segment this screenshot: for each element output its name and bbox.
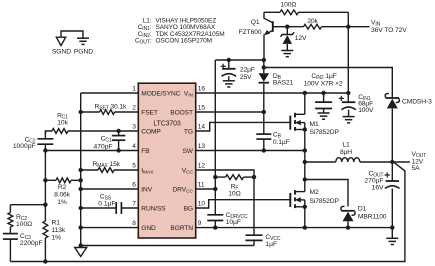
label CC1 470pF bbox=[94, 136, 113, 151]
label CSS 0.1uF bbox=[98, 193, 115, 207]
wire pin16 VIN row bbox=[196, 92, 349, 94]
wire Q1 base row bbox=[273, 26, 288, 28]
svg-text:GND: GND bbox=[141, 225, 156, 232]
wire FB column bbox=[44, 151, 46, 205]
label RMAX 15k bbox=[93, 161, 121, 169]
svg-text:BAS21: BAS21 bbox=[273, 79, 294, 86]
wire pin13 SW row bbox=[196, 150, 305, 152]
svg-text:8: 8 bbox=[132, 220, 136, 227]
svg-text:6: 6 bbox=[132, 182, 136, 189]
label 12V bbox=[295, 35, 307, 42]
node bus/SGND junction bbox=[79, 243, 83, 247]
svg-text:BG: BG bbox=[184, 205, 193, 212]
svg-text:14: 14 bbox=[198, 124, 206, 131]
label L1 8uH bbox=[340, 141, 352, 156]
label Q1 FZT600 bbox=[239, 19, 262, 36]
svg-text:1%: 1% bbox=[57, 199, 67, 206]
diode D1 MBR1100 bbox=[341, 206, 355, 221]
wire CC3 bottom corner bbox=[9, 239, 11, 261]
svg-text:12V: 12V bbox=[295, 35, 307, 42]
transistor M2 Si7852DP bbox=[290, 190, 307, 209]
svg-text:8µH: 8µH bbox=[340, 149, 352, 156]
node INV/bus junction bbox=[79, 187, 83, 191]
resistor 100 ohm bbox=[280, 10, 299, 15]
node M2 source/bus junction bbox=[303, 225, 307, 229]
resistor RMAX 15k bbox=[98, 168, 114, 173]
wire D1 cathode branch bbox=[305, 180, 348, 207]
wire R2 right lead bbox=[71, 179, 81, 181]
svg-text:FSET: FSET bbox=[141, 109, 158, 116]
wire CDRVCC bottom lead bbox=[214, 221, 216, 228]
wire RF left lead bbox=[215, 176, 225, 178]
node CC1 bottom bbox=[116, 148, 120, 152]
node RF left junction bbox=[213, 175, 217, 179]
IC pin name labels bbox=[141, 90, 193, 232]
wire SGND rail bbox=[81, 245, 254, 247]
svg-text:M1: M1 bbox=[310, 121, 319, 128]
wire RC2 to CC3 bbox=[9, 227, 11, 233]
svg-text:10k: 10k bbox=[57, 120, 68, 127]
label CIN1 68uF 100V bbox=[358, 94, 374, 114]
wire RC1 corner to resistor bbox=[44, 131, 46, 134]
label CC2 1000pF bbox=[13, 136, 36, 150]
label R2 8.06k 1% bbox=[54, 184, 71, 206]
svg-text:100V X7R ×2: 100V X7R ×2 bbox=[304, 81, 343, 88]
node RF right junction bbox=[252, 175, 256, 179]
wire pin1 MODE/SYNC bbox=[81, 92, 139, 94]
svg-text:5: 5 bbox=[132, 163, 136, 170]
wire R1 bottom lead bbox=[44, 238, 46, 262]
svg-text:270µF: 270µF bbox=[364, 178, 383, 185]
capacitor CC1 470pF bbox=[112, 131, 126, 151]
node GND/bus junction bbox=[79, 225, 83, 229]
label 20k bbox=[307, 18, 318, 25]
capacitor CSS 0.1uF bbox=[116, 202, 121, 214]
wire pin8 GND bbox=[81, 227, 139, 229]
svg-text:M2: M2 bbox=[310, 189, 319, 196]
svg-text:5A: 5A bbox=[412, 165, 421, 172]
plus sign 22uF bbox=[221, 64, 226, 69]
component table text bbox=[135, 17, 225, 45]
wire RF right lead bbox=[244, 176, 255, 178]
resistor R1 113k bbox=[43, 221, 48, 238]
wire pin11 DRVCC bbox=[196, 188, 216, 190]
wire top 100ohm row bbox=[264, 11, 348, 13]
wire SGND bus vertical bbox=[80, 93, 82, 246]
node DRVCC column junction bbox=[213, 187, 217, 191]
svg-text:16V: 16V bbox=[372, 185, 384, 192]
svg-text:113k: 113k bbox=[52, 227, 66, 234]
node BOOST/DB/CB junction bbox=[262, 110, 266, 114]
svg-text:7: 7 bbox=[132, 201, 136, 208]
node SW column junction bbox=[303, 148, 307, 152]
wire M2 drain up bbox=[304, 180, 306, 192]
node FB/CC2 junction bbox=[43, 148, 47, 152]
Q1 emitter arrow bbox=[264, 30, 270, 35]
wire RC1 left lead + corner down bbox=[45, 131, 52, 138]
wire DB cathode lead bbox=[263, 84, 265, 112]
transistor M1 Si7852DP bbox=[290, 113, 307, 132]
label RSET 30.1k bbox=[95, 103, 128, 111]
svg-text:BGRTN: BGRTN bbox=[170, 225, 193, 232]
wire RMAX to pin5 bbox=[114, 169, 138, 171]
svg-text:COMP: COMP bbox=[141, 128, 161, 135]
label 100 ohm bbox=[281, 1, 297, 8]
svg-text:TG: TG bbox=[184, 128, 193, 135]
wire RC2 top lead bbox=[9, 205, 11, 213]
op-amp U1 LTC3703 IC body bbox=[138, 83, 195, 238]
svg-text:0.1µF: 0.1µF bbox=[98, 201, 115, 208]
svg-text:8.06k: 8.06k bbox=[54, 192, 71, 199]
wire CSS to pin7 bbox=[121, 207, 138, 209]
wire L1 right lead bbox=[360, 161, 393, 163]
plus sign COUT bbox=[385, 172, 390, 177]
svg-text:4: 4 bbox=[132, 143, 136, 150]
svg-text:16: 16 bbox=[198, 86, 206, 93]
SGND symbol (open triangle) bbox=[56, 37, 65, 45]
svg-text:0.1µF: 0.1µF bbox=[273, 139, 290, 146]
node VIN branch junction bbox=[346, 25, 350, 29]
svg-text:22µF: 22µF bbox=[240, 67, 255, 74]
PGND label bbox=[74, 49, 93, 56]
svg-text:10: 10 bbox=[198, 201, 206, 208]
SGND symbol under bus bbox=[75, 248, 87, 257]
node divider junction bbox=[43, 203, 47, 207]
capacitor CB 0.1uF bbox=[256, 112, 271, 151]
ground zener bbox=[281, 51, 293, 57]
wire M1 source down bbox=[304, 130, 306, 151]
svg-text:1000pF: 1000pF bbox=[13, 143, 36, 150]
svg-text:R2: R2 bbox=[58, 184, 67, 191]
capacitor 22uF 25V bbox=[222, 60, 237, 87]
resistor RC1 10k bbox=[52, 129, 68, 134]
svg-text:Si7852DP: Si7852DP bbox=[310, 129, 340, 136]
capacitor CIN2 1uF 100V X7R x2 bbox=[315, 93, 332, 119]
wire VOUT stub bbox=[392, 161, 410, 163]
wire divider node row bbox=[10, 204, 45, 206]
node CIN2 junction bbox=[321, 91, 325, 95]
label VIN 36V TO 72V bbox=[371, 19, 407, 33]
wire R2 left lead bbox=[45, 179, 56, 181]
label DB BAS21 bbox=[273, 73, 294, 87]
node CC1 top bbox=[116, 129, 120, 133]
svg-text:11: 11 bbox=[198, 182, 205, 189]
SGND label bbox=[52, 49, 71, 56]
wire pin14 TG to M1 gate bbox=[196, 122, 291, 131]
svg-text:20k: 20k bbox=[307, 18, 318, 25]
node VIN corner junction bbox=[346, 91, 350, 95]
bottom VOUT rail bbox=[10, 161, 405, 261]
label 22uF 25V bbox=[240, 67, 255, 81]
node COUT/bus junction bbox=[390, 225, 394, 229]
label D1 MBR1100 bbox=[358, 206, 387, 221]
svg-text:MBR1100: MBR1100 bbox=[358, 213, 387, 220]
label CMDSH-3 bbox=[402, 99, 432, 106]
resistor RSET 30.1k bbox=[100, 110, 115, 115]
capacitor CIN1 68uF 100V bbox=[341, 93, 356, 123]
PGND symbol (earth ground) bbox=[77, 38, 89, 44]
wire M2 source down bbox=[304, 207, 306, 228]
svg-text:36V TO 72V: 36V TO 72V bbox=[371, 27, 407, 34]
svg-text:1: 1 bbox=[132, 86, 136, 93]
svg-text:R1: R1 bbox=[52, 219, 61, 226]
node RMAX/bus junction bbox=[79, 168, 83, 172]
svg-text:1µF: 1µF bbox=[265, 241, 277, 248]
resistor R2 8.06k bbox=[56, 178, 71, 183]
svg-text:OSCON 16SP270M: OSCON 16SP270M bbox=[156, 38, 212, 45]
capacitor COUT 270uF 16V bbox=[385, 162, 400, 228]
ground COUT bbox=[386, 228, 398, 245]
svg-text:RMAX 15k: RMAX 15k bbox=[93, 161, 121, 169]
node zener top junction bbox=[285, 25, 289, 29]
node CSS/bus junction bbox=[79, 206, 83, 210]
svg-text:MODE/SYNC: MODE/SYNC bbox=[141, 90, 180, 97]
wire COMP row bbox=[68, 130, 138, 132]
wire CC2 bottom to FB node bbox=[44, 144, 46, 150]
svg-text:FB: FB bbox=[141, 148, 150, 155]
wire pin10 BG to M2 gate bbox=[196, 200, 291, 208]
svg-text:10µF: 10µF bbox=[226, 219, 241, 226]
svg-text:CMDSH-3: CMDSH-3 bbox=[402, 99, 432, 106]
label VOUT 12V 5A bbox=[412, 151, 427, 172]
node R2/bus junction bbox=[79, 178, 83, 182]
svg-text:COUT:: COUT: bbox=[135, 38, 152, 46]
IC name LTC3703 bbox=[153, 121, 180, 128]
svg-text:100Ω: 100Ω bbox=[16, 221, 32, 228]
wire DB top lead bbox=[263, 60, 265, 73]
node VOUT junction bbox=[390, 160, 394, 164]
label COUT 270uF 16V bbox=[364, 171, 384, 192]
node M1 drain junction bbox=[303, 91, 307, 95]
wire CMDSH branch bbox=[264, 68, 393, 98]
diode CMDSH-3 bbox=[385, 94, 399, 109]
node R2 left junction bbox=[43, 178, 47, 182]
svg-text:9: 9 bbox=[198, 220, 202, 227]
node L1 junction bbox=[303, 160, 307, 164]
wire DRVCC column bbox=[214, 60, 216, 215]
wire VIN vertical drop bbox=[347, 12, 349, 93]
wire VIN row bbox=[287, 26, 369, 28]
wire Q1 emitter bbox=[264, 30, 273, 60]
svg-text:10Ω: 10Ω bbox=[228, 191, 240, 198]
wire R1 top lead bbox=[44, 205, 46, 221]
label CB 0.1uF bbox=[273, 131, 290, 146]
wire CVCC bottom corner bbox=[253, 240, 255, 245]
label RC1 10k bbox=[57, 113, 69, 127]
svg-text:Si7852DP: Si7852DP bbox=[310, 198, 340, 205]
svg-text:CIN2 1µF: CIN2 1µF bbox=[311, 73, 336, 81]
node D1 branch junction bbox=[303, 177, 307, 181]
wire D1 anode lead bbox=[347, 221, 349, 228]
resistor RC2 100 ohm bbox=[8, 213, 13, 228]
node D1 anode/bus junction bbox=[346, 225, 350, 229]
svg-text:100V: 100V bbox=[358, 107, 374, 114]
label CIN2 1uF 100V X7R x2 bbox=[304, 73, 343, 88]
resistor RF 10 ohm bbox=[226, 175, 244, 180]
wire L1 left lead bbox=[305, 161, 336, 163]
svg-text:2200pF: 2200pF bbox=[20, 240, 43, 247]
wire CSS left lead bbox=[81, 207, 117, 209]
svg-text:100Ω: 100Ω bbox=[281, 1, 297, 8]
diode DB BAS21 bbox=[259, 73, 270, 83]
svg-text:1%: 1% bbox=[52, 234, 62, 241]
zener diode 12V bbox=[280, 32, 294, 44]
wire CMDSH anode lead bbox=[391, 108, 393, 162]
svg-text:15: 15 bbox=[198, 105, 206, 112]
wire RSET left lead bbox=[81, 111, 100, 113]
transistor Q1 bar bbox=[272, 21, 274, 32]
label M1 Si7852DP bbox=[310, 121, 340, 136]
svg-text:INV: INV bbox=[141, 186, 152, 193]
capacitor CVCC 1uF bbox=[246, 235, 263, 240]
svg-text:25V: 25V bbox=[240, 74, 252, 81]
svg-text:RSET 30.1k: RSET 30.1k bbox=[95, 103, 128, 111]
svg-text:12: 12 bbox=[198, 163, 206, 170]
svg-text:PGND: PGND bbox=[74, 49, 93, 56]
label CDRVCC 10uF bbox=[226, 212, 248, 226]
IC pin numbers bbox=[132, 86, 205, 228]
wire zener bottom lead bbox=[286, 44, 288, 50]
node R1/VOUT rail junction bbox=[43, 259, 47, 263]
label CC3 2200pF bbox=[20, 233, 43, 247]
wire SW to D1 branch bbox=[304, 162, 306, 180]
inductor L1 8uH bbox=[336, 158, 360, 162]
svg-text:FZT600: FZT600 bbox=[239, 29, 262, 36]
capacitor CDRVCC 10uF bbox=[207, 215, 223, 221]
capacitor CC3 2200pF bbox=[3, 234, 18, 240]
svg-text:SGND: SGND bbox=[52, 49, 71, 56]
wire pin12 VCC to corner bbox=[196, 170, 254, 235]
wire RMAX left lead bbox=[81, 169, 98, 171]
svg-text:2: 2 bbox=[132, 105, 136, 112]
svg-text:13: 13 bbox=[198, 143, 206, 150]
svg-text:LTC3703: LTC3703 bbox=[153, 121, 180, 128]
node CB bottom junction bbox=[262, 148, 266, 152]
node CDRVCC bottom junction bbox=[213, 225, 217, 229]
label M2 Si7852DP bbox=[310, 189, 340, 205]
wire 12V supply node bbox=[215, 59, 263, 61]
wire Q1 collector bbox=[264, 12, 273, 22]
svg-text:Q1: Q1 bbox=[251, 19, 260, 26]
wire M1 drain up bbox=[304, 93, 306, 114]
wire RSET to pin2 bbox=[115, 111, 139, 113]
node pin2/RSET junction bbox=[79, 110, 83, 114]
plus sign CIN1 bbox=[339, 96, 344, 101]
svg-text:3: 3 bbox=[132, 124, 136, 131]
resistor 20k bbox=[304, 24, 322, 29]
svg-text:470pF: 470pF bbox=[94, 143, 113, 150]
ground legend bracket wire bbox=[61, 31, 83, 38]
svg-text:L1: L1 bbox=[342, 141, 350, 148]
node Q1 emitter junction bbox=[262, 58, 266, 62]
label CVCC 1uF bbox=[265, 234, 280, 248]
wire pin15 BOOST row bbox=[196, 111, 264, 113]
wire pin9 BGRTN bus bbox=[196, 227, 393, 229]
label RC2 100ohm bbox=[16, 214, 32, 228]
node CMDSH branch junction bbox=[262, 65, 266, 69]
svg-text:SW: SW bbox=[182, 148, 193, 155]
label RF 10ohm bbox=[228, 183, 240, 197]
capacitor CC2 1000pF bbox=[37, 139, 53, 144]
svg-text:BOOST: BOOST bbox=[170, 109, 193, 116]
label R1 113k 1% bbox=[52, 219, 66, 241]
wire SW to L1 junction bbox=[304, 151, 306, 163]
wire zener top lead bbox=[286, 27, 288, 35]
node 22uF junction bbox=[227, 58, 231, 62]
svg-text:D1: D1 bbox=[358, 206, 367, 213]
wire FB row bbox=[45, 150, 138, 152]
wire pin6 INV bbox=[81, 188, 139, 190]
svg-text:RUN/SS: RUN/SS bbox=[141, 205, 166, 212]
